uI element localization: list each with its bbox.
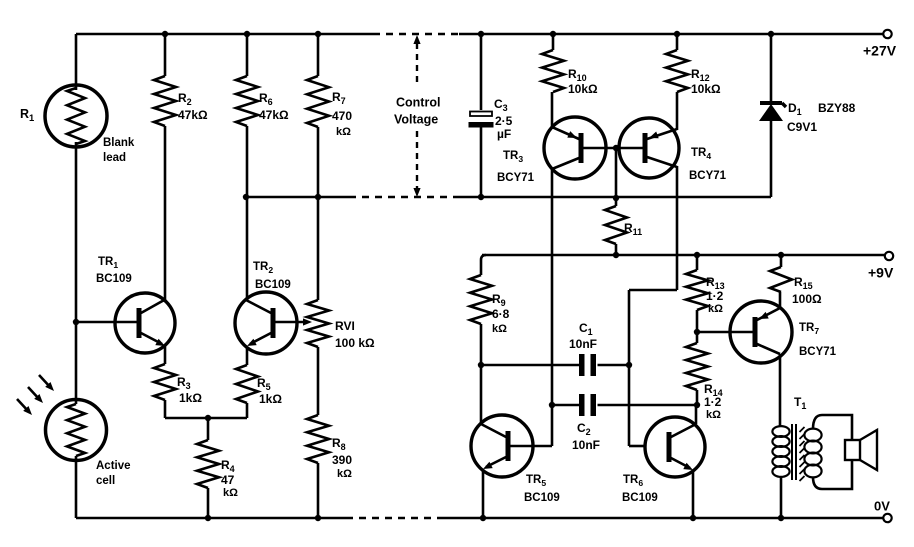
label TR3	[497, 150, 535, 184]
zener diode D1	[759, 103, 786, 121]
label TR2	[253, 261, 291, 291]
wire TR2 emitter lead	[246, 347, 249, 365]
label C2	[572, 421, 600, 452]
wire R8 to 0V	[317, 463, 320, 518]
label R3	[177, 375, 202, 405]
svg-text:0V: 0V	[874, 499, 890, 514]
wire junction to R4	[207, 418, 210, 440]
wire R7 top lead	[317, 34, 320, 76]
label R1	[20, 107, 34, 123]
transformer T1 core	[792, 424, 805, 481]
svg-text:BC109: BC109	[524, 492, 560, 504]
wire TR6 emitter lead	[692, 470, 695, 518]
wire R10 top lead	[552, 34, 555, 50]
svg-text:BC109: BC109	[96, 273, 132, 285]
svg-text:6·8: 6·8	[492, 307, 510, 321]
resistor R13	[686, 270, 708, 310]
wire TR2 base to RV1 wiper	[275, 318, 312, 325]
label Control Voltage	[394, 96, 440, 127]
wire R14 top lead	[696, 332, 699, 343]
wire TR6 collector lead	[695, 405, 698, 424]
svg-text:Control: Control	[396, 96, 440, 110]
svg-text:Voltage: Voltage	[394, 113, 438, 127]
wire +9V rail	[482, 254, 886, 257]
svg-text:Blank: Blank	[103, 137, 135, 149]
photocell R1	[45, 85, 107, 147]
transformer T1 primary winding	[772, 426, 789, 477]
transistor TR4	[619, 118, 679, 178]
wire TR4 base	[616, 147, 644, 150]
node TR3 TR4 base junction	[613, 145, 619, 151]
transistor TR6	[645, 417, 705, 477]
label T1	[794, 395, 806, 411]
svg-text:10nF: 10nF	[569, 337, 597, 351]
wire R9 to TR5 collector	[480, 324, 483, 423]
node top rail R12	[674, 31, 680, 37]
label +9V	[868, 265, 894, 281]
wire TR3 collector down	[551, 168, 554, 446]
wire R14 bottom lead	[696, 390, 699, 405]
resistor R14	[686, 343, 708, 390]
label R5	[257, 376, 282, 406]
resistor R10	[542, 50, 564, 92]
resistor R9	[470, 275, 492, 324]
wire R7 to control bus	[317, 127, 320, 197]
wire 9V rail corner to R9	[481, 255, 486, 275]
wire R5 to R4 node	[246, 403, 249, 418]
svg-text:1kΩ: 1kΩ	[259, 392, 282, 406]
wire TR5 base link	[534, 445, 552, 448]
wire C2 right	[598, 404, 698, 407]
svg-text:BZY88: BZY88	[818, 101, 856, 115]
transistor TR5	[471, 415, 533, 477]
label R9	[492, 292, 510, 335]
wire C3 bottom lead	[480, 128, 483, 198]
svg-text:390: 390	[332, 453, 352, 467]
wire TR3 base	[583, 147, 616, 150]
wire R2 top lead	[164, 34, 167, 76]
svg-text:BC109: BC109	[622, 492, 658, 504]
terminal +9V	[885, 252, 893, 260]
wire top rail dashed segment	[373, 33, 459, 36]
node top rail R2	[162, 31, 168, 37]
transistor TR3	[544, 117, 606, 179]
node C2 TR5-base junction	[549, 402, 555, 408]
capacitor C3	[469, 112, 494, 128]
wire R11 to 9V rail	[615, 244, 618, 255]
wire +27V top rail	[76, 33, 887, 36]
light arrow 3	[17, 399, 32, 415]
resistor R12	[666, 50, 688, 92]
label C3	[494, 97, 513, 141]
label R7	[332, 90, 352, 138]
resistor R15	[770, 267, 792, 292]
svg-text:C9V1: C9V1	[787, 120, 817, 134]
terminal +27V	[883, 30, 891, 38]
svg-text:10kΩ: 10kΩ	[691, 82, 721, 96]
capacitor C1	[579, 354, 596, 376]
node top rail R6	[244, 31, 250, 37]
transistor TR2	[235, 292, 297, 354]
node top rail R10	[550, 31, 556, 37]
label Active cell	[96, 460, 131, 487]
svg-text:+27V: +27V	[863, 43, 897, 59]
label RV1	[335, 319, 375, 350]
node 9V rail R15	[778, 252, 784, 258]
wire left column vertical	[75, 34, 78, 518]
svg-text:10nF: 10nF	[572, 438, 600, 452]
label TR1	[96, 256, 132, 285]
resistor R6	[236, 76, 258, 126]
svg-text:47: 47	[221, 473, 235, 487]
resistor R3	[154, 364, 176, 400]
svg-text:1·2: 1·2	[704, 395, 722, 409]
label Blank lead	[103, 137, 135, 164]
svg-text:kΩ: kΩ	[337, 468, 352, 480]
light arrow 2	[28, 387, 43, 403]
wire secondary bottom to speaker	[813, 460, 852, 489]
node TR1 base junction	[73, 319, 79, 325]
transistor TR7	[730, 301, 792, 363]
label R14	[704, 382, 723, 421]
node R11 9V rail	[613, 252, 619, 258]
wire control bus dashed segment	[349, 196, 454, 199]
wire TR1 base	[76, 321, 137, 324]
label TR7	[799, 322, 837, 358]
control voltage arrow	[413, 35, 420, 197]
resistor R2	[154, 76, 176, 126]
label D1	[787, 101, 856, 134]
wire TR7 collector to T1	[779, 354, 782, 427]
label TR4	[689, 147, 727, 182]
node R14 C2 TR6 junction	[694, 402, 700, 408]
node TR5 emitter rail	[480, 515, 486, 521]
svg-text:470: 470	[332, 109, 352, 123]
svg-text:kΩ: kΩ	[223, 487, 238, 499]
wire R13 to base node	[696, 310, 699, 332]
wire R3 to R4 node	[165, 400, 247, 418]
svg-text:47kΩ: 47kΩ	[178, 108, 208, 122]
label R6	[259, 91, 289, 122]
svg-text:100 kΩ: 100 kΩ	[335, 336, 375, 350]
speaker LS1	[845, 430, 877, 470]
wire bottom rail dashed segment	[346, 517, 442, 520]
node R9 C1 junction	[478, 362, 484, 368]
svg-text:100Ω: 100Ω	[792, 292, 822, 306]
wire C1 left	[481, 364, 579, 367]
node control bus left end	[243, 194, 249, 200]
wire 0V bottom rail	[76, 517, 887, 520]
wire control-voltage bus	[246, 196, 771, 199]
wire base node to bus	[615, 148, 618, 198]
svg-text:cell: cell	[96, 475, 115, 487]
wire bus to R11	[615, 198, 618, 206]
terminal 0V	[883, 514, 891, 522]
svg-text:1·2: 1·2	[706, 289, 724, 303]
node R7 RV1 junction	[315, 194, 321, 200]
label R15	[792, 275, 822, 306]
wire C2 left	[552, 404, 579, 407]
resistor R11	[605, 206, 627, 244]
svg-text:BCY71: BCY71	[689, 170, 727, 182]
wire bus to TR2 collector	[246, 197, 249, 301]
resistor R4	[197, 440, 219, 488]
svg-text:kΩ: kΩ	[336, 126, 351, 138]
node top rail C3	[478, 31, 484, 37]
label TR5	[524, 474, 560, 504]
node T1 bottom rail	[778, 515, 784, 521]
svg-text:2·5: 2·5	[495, 114, 513, 128]
wire TR7 base	[697, 331, 753, 334]
svg-text:10kΩ: 10kΩ	[568, 82, 598, 96]
wire D1 top lead	[770, 34, 773, 103]
potentiometer RV1	[307, 300, 329, 347]
resistor R7	[307, 76, 329, 127]
label R2	[178, 91, 208, 122]
wire R12 top lead	[676, 34, 679, 50]
node R8 bottom rail	[315, 515, 321, 521]
wire secondary top to speaker	[813, 415, 852, 440]
transistor TR1	[115, 293, 175, 353]
svg-text:BCY71: BCY71	[497, 172, 535, 184]
node R4 bottom rail	[205, 515, 211, 521]
node R13 R14 TR7 junction	[694, 329, 700, 335]
wire R12 to TR4 emitter	[676, 92, 679, 130]
wire TR4 collector to TR6 base	[629, 290, 677, 446]
capacitor C2	[579, 394, 596, 416]
wire R6 top lead	[246, 34, 249, 76]
wire D1 bottom lead	[770, 121, 773, 197]
light arrow 1	[39, 375, 54, 391]
wire bus to RV1	[317, 197, 320, 300]
svg-text:BCY71: BCY71	[799, 346, 837, 358]
wire TR1 emitter lead	[164, 346, 167, 364]
label R13	[706, 275, 725, 315]
node C3 control bus	[478, 194, 484, 200]
node 9V rail R13	[694, 252, 700, 258]
label R12	[691, 67, 721, 96]
svg-text:RVI: RVI	[335, 319, 355, 333]
label R11	[624, 221, 642, 237]
svg-text:BC109: BC109	[255, 279, 291, 291]
wire RV1 to R8	[317, 347, 320, 415]
node top rail R7	[315, 31, 321, 37]
resistor R5	[236, 365, 258, 403]
svg-text:+9V: +9V	[868, 265, 894, 281]
wire R4 to 0V	[207, 488, 210, 518]
label R10	[568, 67, 598, 96]
node base bus junction	[613, 195, 619, 201]
wire TR4 collector down	[676, 166, 679, 290]
label C1	[569, 321, 597, 351]
svg-text:kΩ: kΩ	[706, 409, 721, 421]
wire C1 right	[598, 364, 630, 367]
node top rail D1	[768, 31, 774, 37]
label R4	[221, 458, 238, 499]
wire TR5 base	[510, 445, 534, 448]
wire R6 to control bus	[246, 126, 249, 197]
svg-text:lead: lead	[103, 152, 126, 164]
wire TR6 base link	[629, 445, 645, 448]
wire R15 to TR7 emitter	[779, 292, 782, 309]
wire C3 top lead	[480, 34, 483, 110]
node TR6 emitter rail	[690, 515, 696, 521]
wire TR5 emitter lead	[482, 469, 485, 518]
node C1 TR6-base-line junction	[626, 362, 632, 368]
svg-text:µF: µF	[497, 127, 511, 141]
transformer T1 secondary winding	[804, 429, 821, 478]
svg-text:kΩ: kΩ	[492, 323, 507, 335]
svg-text:kΩ: kΩ	[708, 303, 723, 315]
svg-text:47kΩ: 47kΩ	[259, 108, 289, 122]
wire R13 top lead	[696, 255, 699, 270]
label TR6	[622, 474, 658, 504]
resistor R8	[307, 415, 329, 463]
wire R10 to TR3 emitter	[551, 92, 554, 128]
photocell active cell	[46, 400, 107, 461]
wire T1 primary bottom to 0V	[780, 476, 783, 518]
wire R2 to TR1 collector	[164, 126, 167, 300]
label R8	[332, 436, 352, 480]
label +27V	[863, 43, 897, 59]
label 0V	[874, 499, 890, 514]
node R3 R5 R4 junction	[205, 415, 211, 421]
svg-text:1kΩ: 1kΩ	[179, 391, 202, 405]
wire R15 top lead	[780, 255, 783, 267]
svg-text:Active: Active	[96, 460, 131, 472]
